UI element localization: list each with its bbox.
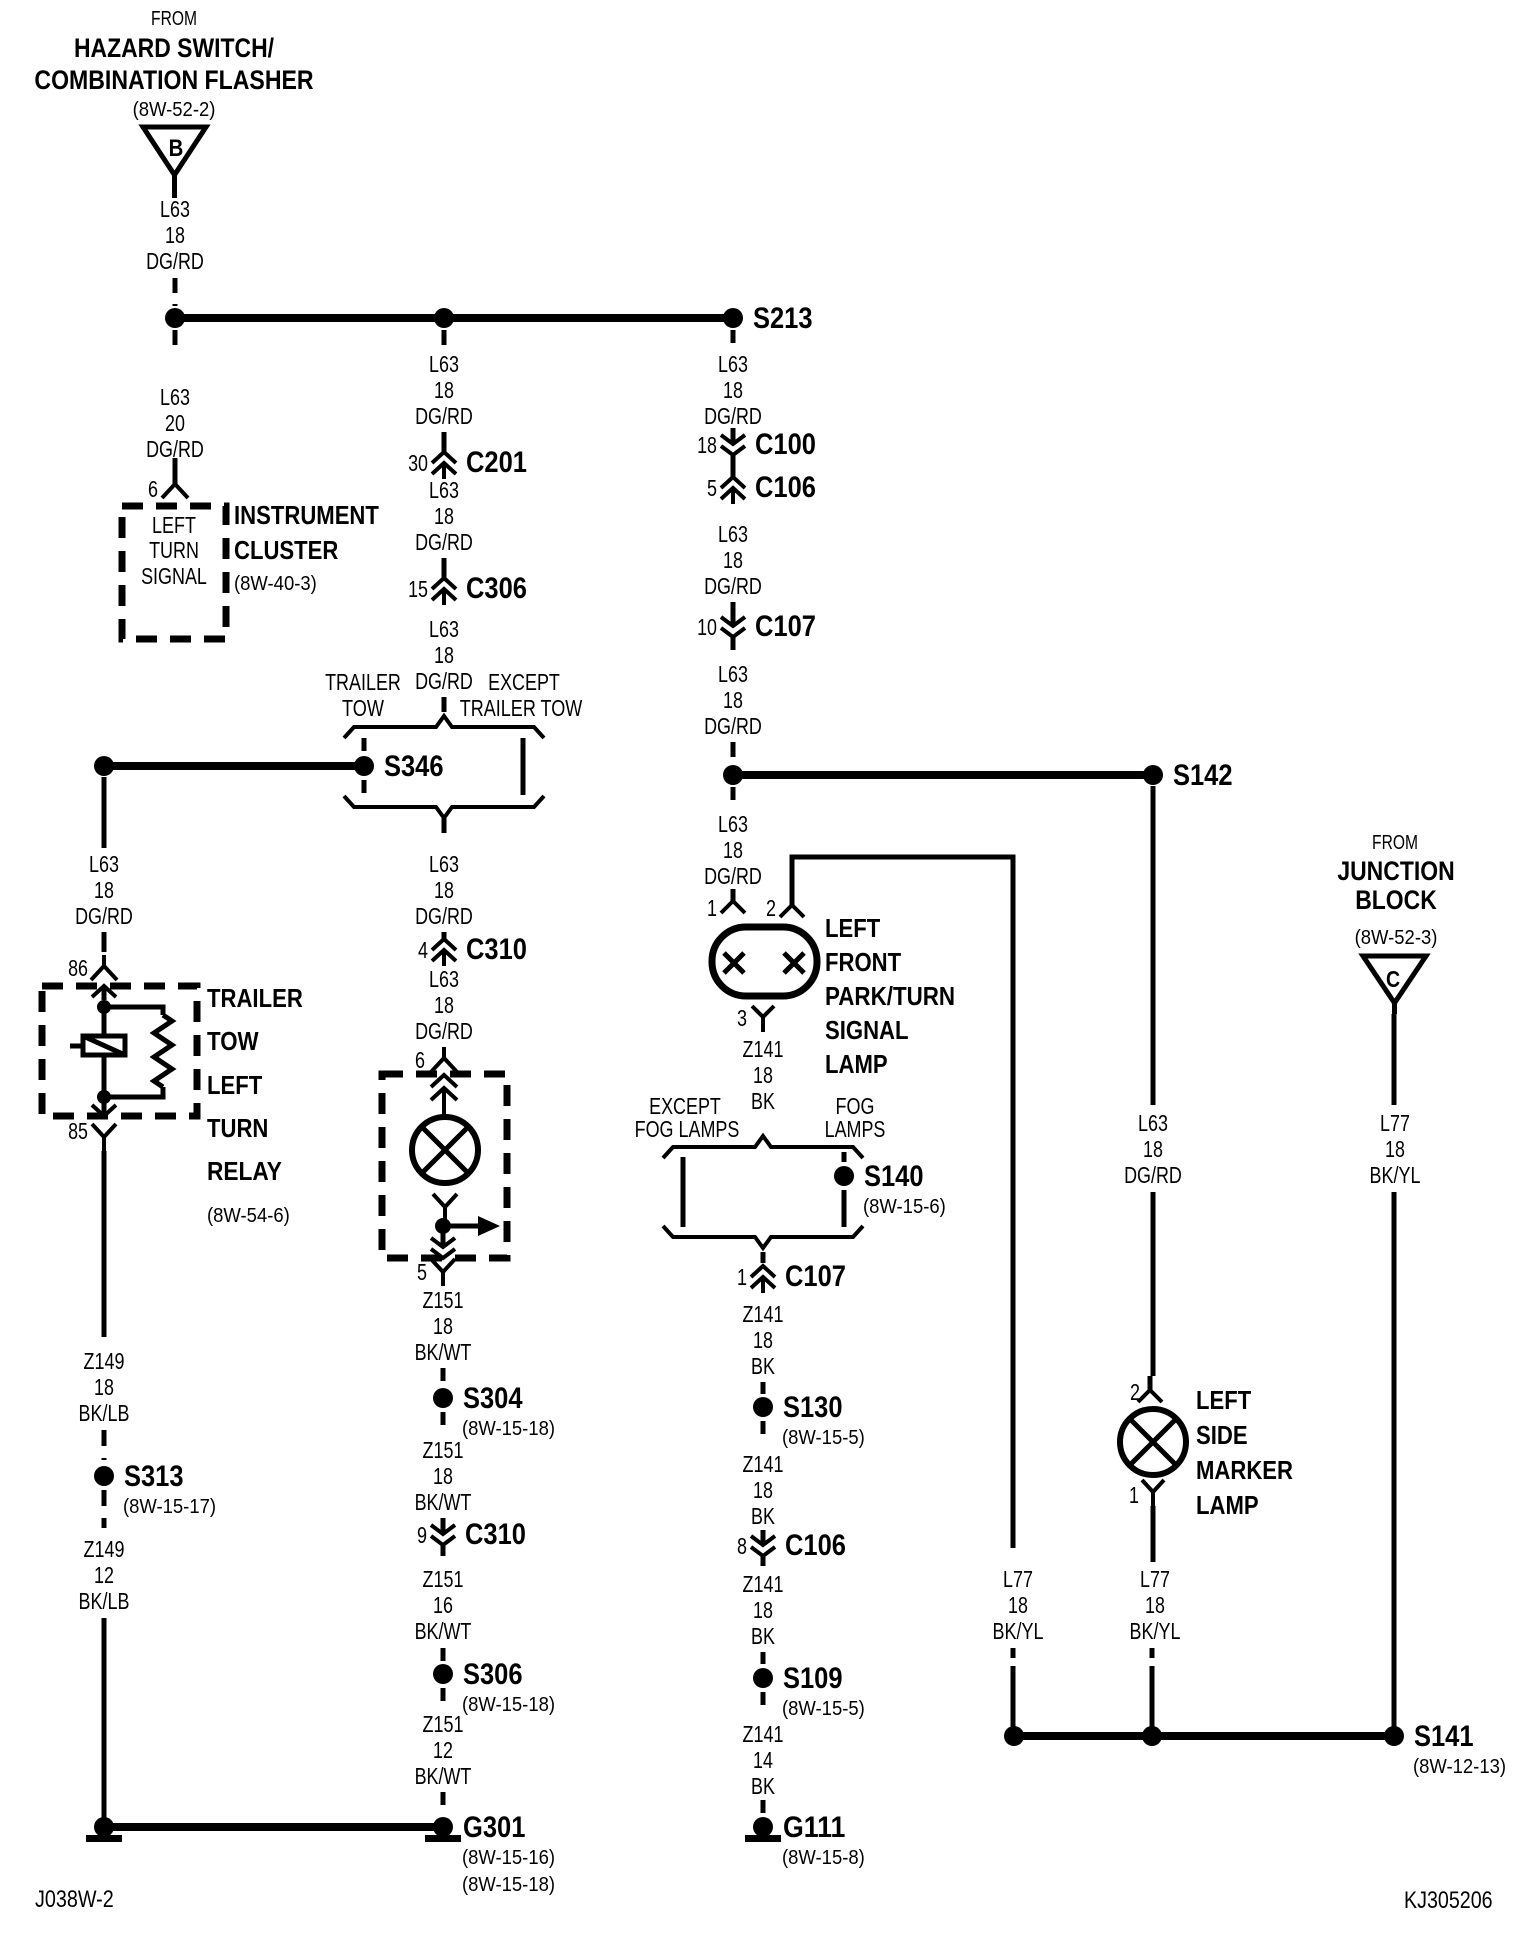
svg-text:FROM: FROM xyxy=(151,8,197,30)
junction node xyxy=(723,765,743,785)
wire xyxy=(442,818,447,842)
svg-text:12: 12 xyxy=(94,1562,114,1588)
svg-text:18: 18 xyxy=(434,503,454,529)
svg-text:LEFT: LEFT xyxy=(207,1070,262,1100)
ground G111 xyxy=(753,1817,773,1837)
svg-text:DG/RD: DG/RD xyxy=(415,529,473,555)
connector C100 pin 18 xyxy=(721,435,745,444)
relay resistor branch xyxy=(104,1007,163,1015)
svg-text:4: 4 xyxy=(418,937,428,963)
svg-text:J038W-2: J038W-2 xyxy=(35,1886,114,1913)
svg-text:(8W-15-18): (8W-15-18) xyxy=(462,1874,555,1896)
svg-text:BK/YL: BK/YL xyxy=(993,1618,1044,1644)
wire xyxy=(102,1618,107,1827)
wire xyxy=(761,1692,766,1712)
svg-text:RELAY: RELAY xyxy=(207,1156,282,1186)
svg-text:Z141: Z141 xyxy=(743,1301,784,1327)
wire from pin 2 up and over to park feed xyxy=(792,857,1013,1548)
svg-text:(8W-15-18): (8W-15-18) xyxy=(462,1694,555,1716)
svg-text:2: 2 xyxy=(766,895,776,921)
svg-text:S346: S346 xyxy=(384,750,444,783)
svg-text:1: 1 xyxy=(707,895,717,921)
svg-text:L63: L63 xyxy=(89,851,119,877)
svg-text:Z151: Z151 xyxy=(423,1437,464,1463)
wire xyxy=(102,1430,107,1460)
svg-text:LAMP: LAMP xyxy=(825,1049,888,1079)
left side marker lamp element xyxy=(1120,1409,1186,1475)
wire xyxy=(102,777,107,848)
svg-text:Z151: Z151 xyxy=(423,1287,464,1313)
svg-text:MARKER: MARKER xyxy=(1196,1455,1293,1485)
wire xyxy=(731,455,736,477)
ground bus wire xyxy=(104,1823,443,1831)
wire xyxy=(442,432,447,452)
svg-text:LEFT: LEFT xyxy=(825,913,880,943)
svg-text:18: 18 xyxy=(1145,1592,1165,1618)
svg-text:12: 12 xyxy=(433,1737,453,1763)
branch brace (open) xyxy=(344,716,544,738)
wire xyxy=(102,1151,107,1337)
svg-text:DG/RD: DG/RD xyxy=(1124,1162,1182,1188)
connector chevrons out of lamp box xyxy=(431,1238,455,1247)
connector C106 pin 5 xyxy=(721,477,745,488)
wire xyxy=(731,428,736,444)
svg-text:(8W-15-18): (8W-15-18) xyxy=(462,1418,555,1440)
svg-text:1: 1 xyxy=(737,1264,747,1290)
svg-text:C306: C306 xyxy=(466,572,527,605)
wire xyxy=(761,1652,766,1664)
svg-text:18: 18 xyxy=(723,547,743,573)
ground left end xyxy=(94,1817,114,1837)
svg-text:L63: L63 xyxy=(429,851,459,877)
wire xyxy=(1150,1648,1155,1658)
svg-text:(8W-15-17): (8W-15-17) xyxy=(123,1496,216,1518)
svg-text:L63: L63 xyxy=(429,477,459,503)
svg-text:S130: S130 xyxy=(783,1391,843,1424)
svg-text:Z141: Z141 xyxy=(743,1571,784,1597)
svg-text:18: 18 xyxy=(753,1327,773,1353)
svg-text:18: 18 xyxy=(433,1313,453,1339)
svg-text:CLUSTER: CLUSTER xyxy=(234,535,339,565)
connector C107 pin 1 xyxy=(751,1266,775,1277)
svg-text:8: 8 xyxy=(737,1533,747,1559)
svg-text:18: 18 xyxy=(753,1477,773,1503)
wire xyxy=(731,787,736,800)
svg-text:(8W-40-3): (8W-40-3) xyxy=(234,573,317,595)
relay coil branch wire xyxy=(102,1007,107,1036)
svg-text:INSTRUMENT: INSTRUMENT xyxy=(234,500,379,530)
svg-text:TOW: TOW xyxy=(207,1026,259,1056)
relay coil xyxy=(83,1036,125,1055)
svg-text:Z149: Z149 xyxy=(84,1536,125,1562)
branch brace (close) xyxy=(344,796,544,818)
svg-text:10: 10 xyxy=(697,614,717,640)
relay internal node xyxy=(97,1000,111,1014)
svg-text:L63: L63 xyxy=(429,351,459,377)
svg-text:DG/RD: DG/RD xyxy=(75,903,133,929)
svg-text:18: 18 xyxy=(94,1374,114,1400)
svg-text:BLOCK: BLOCK xyxy=(1355,885,1437,915)
wire xyxy=(362,780,367,794)
wire from S142 xyxy=(1151,786,1156,1105)
trailer tow left turn relay dashed box xyxy=(42,986,197,1116)
lamp output fork xyxy=(433,1194,457,1221)
svg-text:C310: C310 xyxy=(466,933,527,966)
wire xyxy=(442,932,447,940)
svg-text:Z151: Z151 xyxy=(423,1566,464,1592)
junction node xyxy=(434,308,454,328)
svg-text:TURN: TURN xyxy=(149,537,199,563)
svg-text:L63: L63 xyxy=(160,384,190,410)
connector C310 pin 9 xyxy=(431,1525,455,1534)
wire xyxy=(731,602,736,626)
off-page connector triangle C xyxy=(1363,956,1426,1003)
svg-text:5: 5 xyxy=(707,475,717,501)
svg-text:(8W-15-5): (8W-15-5) xyxy=(782,1698,865,1720)
svg-text:Z151: Z151 xyxy=(423,1711,464,1737)
svg-text:20: 20 xyxy=(165,410,185,436)
svg-text:BK/LB: BK/LB xyxy=(79,1400,130,1426)
splice junction at top bus xyxy=(165,308,185,328)
connector C107 pin 10 xyxy=(721,617,745,626)
svg-text:C310: C310 xyxy=(465,1518,526,1551)
svg-text:(8W-12-13): (8W-12-13) xyxy=(1413,1756,1506,1778)
splice S142 xyxy=(1143,765,1163,785)
splice S304 xyxy=(433,1388,453,1408)
svg-text:BK/WT: BK/WT xyxy=(415,1763,472,1789)
svg-text:18: 18 xyxy=(434,877,454,903)
wire xyxy=(442,697,447,712)
svg-text:L77: L77 xyxy=(1380,1110,1410,1136)
svg-text:S304: S304 xyxy=(463,1382,523,1415)
svg-text:DG/RD: DG/RD xyxy=(704,573,762,599)
connector C201 pin 30 xyxy=(432,452,456,463)
wire xyxy=(761,1530,766,1545)
svg-text:C201: C201 xyxy=(466,446,527,479)
junction dot with feed arrow xyxy=(435,1218,451,1234)
svg-text:L63: L63 xyxy=(429,616,459,642)
svg-text:Z141: Z141 xyxy=(743,1451,784,1477)
wire xyxy=(1151,1192,1156,1376)
svg-text:HAZARD SWITCH/: HAZARD SWITCH/ xyxy=(74,33,275,63)
left front park/turn signal lamp body xyxy=(712,927,817,996)
svg-text:(8W-15-5): (8W-15-5) xyxy=(782,1427,865,1449)
instrument cluster dashed box xyxy=(122,506,226,639)
splice S213 xyxy=(723,308,743,328)
svg-text:DG/RD: DG/RD xyxy=(415,668,473,694)
wire xyxy=(441,1518,446,1534)
svg-text:BK: BK xyxy=(751,1353,775,1379)
svg-text:COMBINATION FLASHER: COMBINATION FLASHER xyxy=(34,65,313,95)
wire xyxy=(731,742,736,762)
svg-text:18: 18 xyxy=(697,432,717,458)
wire xyxy=(173,278,178,306)
wire xyxy=(442,558,447,578)
svg-text:BK/YL: BK/YL xyxy=(1370,1162,1421,1188)
wire except-trailer-tow branch xyxy=(521,738,526,795)
svg-text:DG/RD: DG/RD xyxy=(415,903,473,929)
svg-text:KJ305206: KJ305206 xyxy=(1404,1887,1493,1914)
svg-text:L63: L63 xyxy=(718,661,748,687)
svg-text:S213: S213 xyxy=(753,302,813,335)
wire xyxy=(761,1421,766,1440)
wire xyxy=(441,1412,446,1432)
svg-text:Z141: Z141 xyxy=(743,1721,784,1747)
wire xyxy=(441,1226,446,1245)
svg-text:C100: C100 xyxy=(755,428,816,461)
svg-text:14: 14 xyxy=(753,1747,773,1773)
splice S306 xyxy=(433,1664,453,1684)
wire xyxy=(441,1688,446,1708)
splice S346 xyxy=(354,756,374,776)
svg-text:1: 1 xyxy=(1129,1482,1139,1508)
svg-text:C: C xyxy=(1386,966,1400,992)
svg-text:BK: BK xyxy=(751,1773,775,1799)
svg-text:LAMP: LAMP xyxy=(1196,1490,1259,1520)
svg-text:S109: S109 xyxy=(783,1662,843,1695)
lamp element (circle with X) xyxy=(412,1117,478,1183)
svg-text:18: 18 xyxy=(753,1597,773,1623)
wire bus to S213 xyxy=(175,314,733,322)
svg-text:(8W-52-2): (8W-52-2) xyxy=(133,99,216,121)
wire xyxy=(842,1190,847,1227)
ground G301 xyxy=(433,1817,453,1837)
junction node xyxy=(1142,1726,1162,1746)
svg-text:18: 18 xyxy=(434,642,454,668)
wire bus to trailer tow relay xyxy=(104,762,364,770)
svg-text:18: 18 xyxy=(94,877,114,903)
svg-text:L77: L77 xyxy=(1140,1566,1170,1592)
connector chevrons into lamp xyxy=(431,1075,457,1087)
svg-text:9: 9 xyxy=(417,1522,427,1548)
svg-text:18: 18 xyxy=(165,222,185,248)
svg-text:LEFT: LEFT xyxy=(1196,1385,1251,1415)
svg-text:L63: L63 xyxy=(429,966,459,992)
svg-text:LAMPS: LAMPS xyxy=(825,1116,886,1142)
splice S109 xyxy=(753,1668,773,1688)
svg-text:Z141: Z141 xyxy=(743,1036,784,1062)
svg-text:BK/LB: BK/LB xyxy=(79,1588,130,1614)
svg-text:C107: C107 xyxy=(755,610,816,643)
wire xyxy=(173,330,178,352)
wire trailer tow branch xyxy=(362,738,367,752)
svg-text:C107: C107 xyxy=(785,1260,846,1293)
fog lamps branch brace (close) xyxy=(663,1226,863,1248)
svg-text:SIDE: SIDE xyxy=(1196,1420,1248,1450)
svg-text:DG/RD: DG/RD xyxy=(146,248,204,274)
svg-text:18: 18 xyxy=(434,377,454,403)
lamp filament X right xyxy=(784,953,804,973)
svg-text:L63: L63 xyxy=(160,196,190,222)
svg-text:18: 18 xyxy=(723,837,743,863)
svg-text:BK/WT: BK/WT xyxy=(415,1489,472,1515)
wire xyxy=(102,1055,107,1091)
svg-text:6: 6 xyxy=(415,1047,425,1073)
wire xyxy=(102,1490,107,1528)
svg-text:C106: C106 xyxy=(785,1529,846,1562)
svg-text:SIGNAL: SIGNAL xyxy=(141,563,207,589)
svg-text:DG/RD: DG/RD xyxy=(704,403,762,429)
wire xyxy=(1151,1506,1156,1562)
wire xyxy=(441,1792,446,1814)
svg-text:EXCEPT: EXCEPT xyxy=(488,669,560,695)
connector C306 pin 15 xyxy=(432,578,456,589)
svg-text:BK/WT: BK/WT xyxy=(415,1618,472,1644)
svg-text:6: 6 xyxy=(148,476,158,502)
svg-text:L77: L77 xyxy=(1003,1566,1033,1592)
svg-text:S140: S140 xyxy=(864,1160,924,1193)
svg-text:PARK/TURN: PARK/TURN xyxy=(825,981,955,1011)
bottom bus wire to S141 xyxy=(1014,1732,1394,1740)
svg-text:(8W-54-6): (8W-54-6) xyxy=(207,1205,290,1227)
svg-text:FRONT: FRONT xyxy=(825,947,901,977)
splice S313 xyxy=(94,1466,114,1486)
svg-text:LEFT: LEFT xyxy=(152,512,196,538)
connector C106 pin 8 xyxy=(751,1536,775,1545)
svg-text:FROM: FROM xyxy=(1372,832,1418,854)
wire xyxy=(761,1800,766,1814)
svg-text:5: 5 xyxy=(417,1259,427,1285)
svg-text:3: 3 xyxy=(737,1005,747,1031)
svg-text:(8W-52-3): (8W-52-3) xyxy=(1355,927,1438,949)
svg-text:18: 18 xyxy=(753,1062,773,1088)
svg-text:TRAILER: TRAILER xyxy=(207,983,303,1013)
chevron into relay xyxy=(92,986,116,997)
junction node xyxy=(1004,1726,1024,1746)
svg-text:DG/RD: DG/RD xyxy=(704,863,762,889)
svg-text:18: 18 xyxy=(433,1463,453,1489)
splice S141 xyxy=(1384,1726,1404,1746)
svg-text:S313: S313 xyxy=(124,1460,184,1493)
wire fog branch xyxy=(842,1152,847,1162)
fog lamps branch brace (open) xyxy=(663,1136,863,1158)
svg-text:TRAILER TOW: TRAILER TOW xyxy=(460,695,583,721)
svg-text:(8W-15-6): (8W-15-6) xyxy=(863,1196,946,1218)
svg-text:SIGNAL: SIGNAL xyxy=(825,1015,909,1045)
svg-text:S306: S306 xyxy=(463,1658,523,1691)
svg-text:TOW: TOW xyxy=(342,695,384,721)
lamp filament X left xyxy=(724,953,744,973)
svg-text:TURN: TURN xyxy=(207,1113,268,1143)
svg-text:DG/RD: DG/RD xyxy=(415,1018,473,1044)
svg-text:S142: S142 xyxy=(1173,759,1233,792)
svg-text:16: 16 xyxy=(433,1592,453,1618)
svg-text:C106: C106 xyxy=(755,471,816,504)
svg-text:L63: L63 xyxy=(718,521,748,547)
chevron out of relay xyxy=(92,1105,116,1116)
junction node xyxy=(94,756,114,776)
svg-text:18: 18 xyxy=(1143,1136,1163,1162)
svg-text:18: 18 xyxy=(723,687,743,713)
svg-text:G301: G301 xyxy=(463,1811,525,1844)
left tail/stop lamp dashed box xyxy=(382,1074,507,1258)
svg-text:15: 15 xyxy=(408,576,428,602)
wire xyxy=(441,1368,446,1384)
wire xyxy=(1011,1648,1016,1658)
wire xyxy=(761,1252,766,1263)
wire except-fog branch xyxy=(681,1157,686,1227)
svg-text:BK/YL: BK/YL xyxy=(1130,1618,1181,1644)
svg-text:S141: S141 xyxy=(1414,1720,1474,1753)
resistor zigzag xyxy=(154,1015,172,1087)
svg-text:18: 18 xyxy=(1008,1592,1028,1618)
svg-text:18: 18 xyxy=(434,992,454,1018)
wire xyxy=(731,330,736,346)
wire bus to S142 xyxy=(733,771,1153,779)
wire from triangle B xyxy=(172,175,177,198)
splice S130 xyxy=(753,1397,773,1417)
wire xyxy=(442,330,447,352)
svg-text:18: 18 xyxy=(1385,1136,1405,1162)
svg-text:86: 86 xyxy=(68,955,88,981)
svg-text:JUNCTION: JUNCTION xyxy=(1337,856,1454,886)
svg-text:BK: BK xyxy=(751,1503,775,1529)
wire xyxy=(441,1648,446,1662)
svg-text:BK: BK xyxy=(751,1623,775,1649)
svg-text:BK: BK xyxy=(751,1088,775,1114)
svg-text:L63: L63 xyxy=(1138,1110,1168,1136)
svg-text:85: 85 xyxy=(68,1118,88,1144)
svg-text:DG/RD: DG/RD xyxy=(415,403,473,429)
svg-text:FOG LAMPS: FOG LAMPS xyxy=(635,1116,740,1142)
svg-text:TRAILER: TRAILER xyxy=(325,669,401,695)
wire xyxy=(1392,1192,1397,1736)
svg-text:30: 30 xyxy=(408,450,428,476)
off-page connector triangle B xyxy=(143,127,206,175)
connector C310 pin 4 xyxy=(432,939,456,950)
svg-text:DG/RD: DG/RD xyxy=(704,713,762,739)
svg-text:G111: G111 xyxy=(783,1811,845,1844)
svg-text:Z149: Z149 xyxy=(84,1348,125,1374)
relay internal node xyxy=(97,1090,111,1104)
svg-text:BK/WT: BK/WT xyxy=(415,1339,472,1365)
svg-text:(8W-15-8): (8W-15-8) xyxy=(782,1847,865,1869)
wire xyxy=(761,1382,766,1394)
svg-text:L63: L63 xyxy=(718,811,748,837)
wire from triangle C xyxy=(1392,1003,1397,1014)
svg-text:B: B xyxy=(169,135,184,162)
svg-text:18: 18 xyxy=(723,377,743,403)
svg-text:L63: L63 xyxy=(718,351,748,377)
splice S140 xyxy=(834,1166,854,1186)
svg-text:(8W-15-16): (8W-15-16) xyxy=(462,1847,555,1869)
